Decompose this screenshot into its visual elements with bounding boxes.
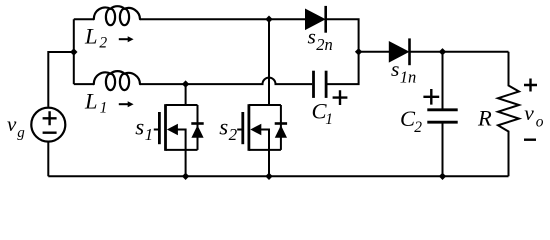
label C2	[400, 106, 422, 136]
wire s2n cathode to C1 right plate	[326, 19, 359, 84]
resistor R	[498, 52, 519, 177]
junction node E (s1 drain tap)	[182, 80, 189, 87]
inductor L2	[94, 6, 140, 25]
svg-text:o: o	[536, 114, 544, 131]
voltage source vg	[31, 108, 65, 142]
svg-text:s: s	[219, 114, 228, 139]
label L1	[84, 89, 107, 117]
wire s1n anode lead	[359, 51, 389, 53]
svg-text:v: v	[7, 112, 17, 136]
junction node D (C2 top)	[439, 48, 446, 55]
diode s2n	[305, 6, 326, 33]
wire top rail	[140, 18, 305, 20]
junction node B (top rail to s2 drain)	[265, 16, 272, 23]
body diode of s1	[191, 105, 203, 150]
junction node G (s2 source)	[265, 173, 272, 180]
svg-text:1: 1	[325, 111, 333, 128]
label vo	[524, 101, 544, 131]
label C2 plus polarity	[423, 89, 439, 105]
label L2	[84, 24, 107, 52]
label C1	[312, 99, 334, 128]
label vo plus polarity	[524, 79, 537, 92]
label s1n	[391, 57, 416, 86]
transistor s2 (MOSFET)	[237, 104, 281, 176]
svg-text:1: 1	[145, 125, 154, 144]
svg-text:s: s	[308, 25, 316, 49]
svg-text:v: v	[524, 101, 534, 125]
wire s2 drain riser	[268, 19, 270, 105]
wire output rail	[410, 51, 509, 53]
label C1 plus polarity	[333, 90, 348, 105]
svg-text:L: L	[84, 89, 98, 114]
svg-text:2: 2	[229, 125, 238, 144]
wire vg top lead	[48, 52, 74, 107]
label s2	[219, 114, 237, 144]
svg-text:2n: 2n	[316, 35, 333, 54]
svg-text:s: s	[135, 114, 144, 139]
body diode of s2	[275, 105, 287, 150]
svg-text:L: L	[84, 24, 98, 49]
wire L1 rail left stub	[74, 83, 94, 85]
svg-text:s: s	[391, 57, 399, 81]
junction node A (input split)	[70, 48, 77, 55]
junction node H (C2 bottom)	[439, 173, 446, 180]
svg-text:R: R	[477, 106, 492, 131]
capacitor C1	[314, 71, 327, 98]
diode s1n	[389, 38, 410, 65]
junction node C (s1n tap)	[355, 48, 362, 55]
label vo minus polarity	[524, 138, 536, 140]
svg-text:g: g	[17, 125, 25, 141]
wire top rail left stub	[74, 18, 94, 20]
svg-text:1n: 1n	[400, 67, 417, 86]
label vg	[7, 112, 25, 141]
capacitor C2	[427, 52, 457, 177]
current arrow of L1	[119, 101, 134, 107]
label s1	[135, 114, 153, 144]
svg-text:2: 2	[99, 35, 107, 52]
wire L1 rail with crossover hop	[140, 78, 312, 84]
wire vg bottom lead	[47, 142, 49, 177]
label s2n	[308, 25, 333, 55]
svg-text:1: 1	[100, 100, 108, 117]
wire input riser (L2/L1 split)	[73, 19, 75, 84]
current arrow of L2	[119, 36, 134, 42]
junction node F (s1 source)	[182, 173, 189, 180]
transistor s1 (MOSFET)	[154, 84, 198, 176]
wire bottom rail	[48, 175, 508, 177]
inductor L1	[94, 71, 140, 90]
svg-text:2: 2	[414, 119, 422, 136]
